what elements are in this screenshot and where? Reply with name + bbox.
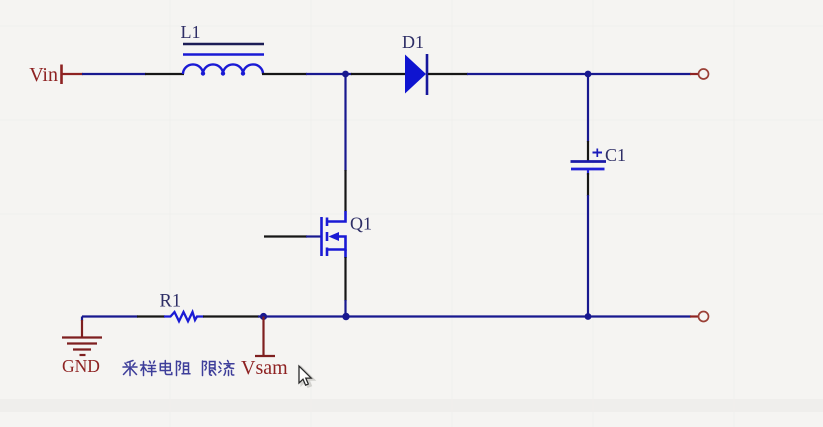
svg-text:Vsam: Vsam bbox=[241, 357, 288, 379]
svg-text:Q1: Q1 bbox=[350, 214, 372, 234]
cursor bbox=[299, 366, 314, 387]
wire: gate stub bbox=[264, 235, 321, 237]
svg-text:L1: L1 bbox=[181, 22, 201, 42]
wire: C1 branch lower bbox=[587, 173, 589, 317]
label: 采样电阻 (sampling resistor) hand-drawn glyphs bbox=[123, 361, 190, 376]
node A junction dot bbox=[342, 71, 349, 78]
wire bottom: GND to R1 bbox=[82, 315, 165, 317]
wire top: Vin to L1 bbox=[82, 73, 184, 75]
port Vsam bbox=[241, 317, 288, 380]
port output bottom bbox=[699, 312, 709, 322]
ground GND bbox=[62, 317, 102, 377]
diode D1 bbox=[402, 32, 427, 95]
transistor Q1 bbox=[322, 211, 373, 258]
svg-text:D1: D1 bbox=[402, 32, 424, 52]
node Vsam junction dot bbox=[260, 313, 267, 320]
capacitor C1 bbox=[571, 145, 627, 175]
port Vin bbox=[29, 64, 83, 86]
node C junction dot bbox=[585, 313, 592, 320]
node source junction dot bbox=[342, 313, 349, 320]
wire bottom: junction to C1 and output bbox=[346, 315, 699, 317]
wire: drain vertical bbox=[344, 74, 346, 212]
port output top bbox=[699, 69, 709, 79]
wire top: junction B to output port bbox=[690, 73, 699, 75]
svg-text:C1: C1 bbox=[605, 145, 626, 165]
wire bottom: R1 to junction Vsam bbox=[203, 315, 346, 317]
wire: C1 branch upper bbox=[587, 74, 589, 161]
wire top: D1 to junction B bbox=[428, 73, 691, 75]
wire top: junction A to D1 bbox=[351, 73, 406, 75]
svg-text:Vin: Vin bbox=[29, 64, 58, 86]
resistor R1 bbox=[160, 292, 205, 322]
svg-text:GND: GND bbox=[62, 356, 100, 376]
svg-text:R1: R1 bbox=[160, 292, 182, 312]
wire top: L1 to junction A bbox=[262, 73, 352, 75]
inductor L1 bbox=[181, 22, 265, 76]
label: 限流 (current limit) hand-drawn glyphs bbox=[203, 361, 235, 376]
node B junction dot bbox=[585, 71, 592, 78]
wire: source vertical bbox=[344, 257, 346, 317]
